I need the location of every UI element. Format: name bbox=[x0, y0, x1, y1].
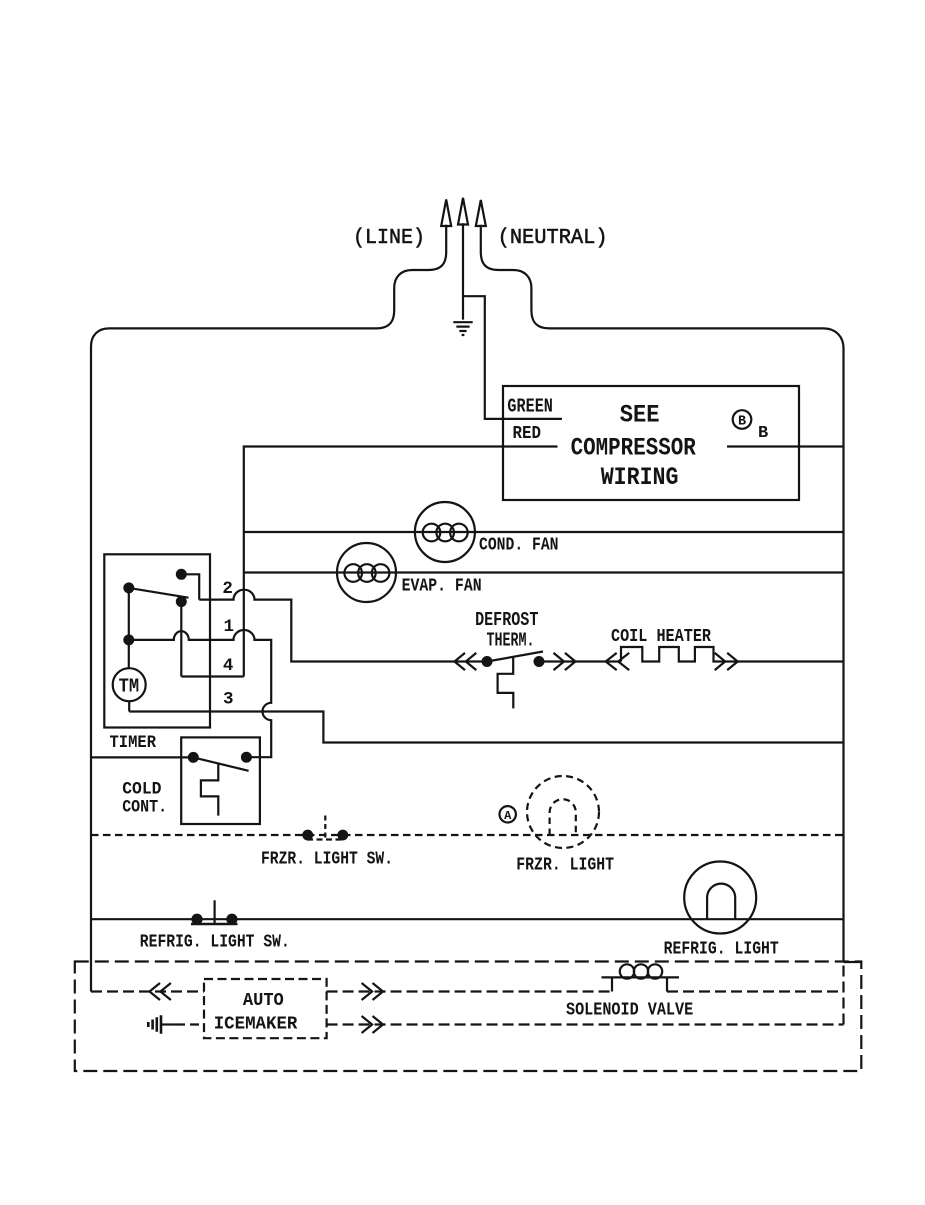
timer junction dot T3 bbox=[124, 636, 133, 645]
wire T2 down to terminal 4 bbox=[180, 602, 182, 677]
motor EVAP. FAN circle bbox=[337, 543, 396, 602]
wire outer box step bbox=[844, 961, 861, 963]
timer switch arm bbox=[129, 588, 189, 598]
wire green branch to compressor bbox=[463, 296, 562, 419]
svg-text:B: B bbox=[758, 424, 768, 443]
wire T3 to TM bbox=[128, 640, 130, 668]
timer contact dot T1 (terminal 2 feed) bbox=[177, 570, 186, 579]
wire frzr light dashed line bbox=[91, 834, 844, 836]
plug prong arrow LINE bbox=[441, 200, 451, 227]
coil SOLENOID VALVE raised line bbox=[602, 977, 680, 991]
ground symbol (plug earth) bbox=[453, 322, 472, 335]
compressor box SEE COMPRESSOR WIRING bbox=[503, 386, 799, 500]
wire NEUTRAL prong to right border bbox=[481, 225, 844, 962]
svg-text:A: A bbox=[504, 809, 512, 823]
svg-text:EVAP. FAN: EVAP. FAN bbox=[402, 576, 482, 597]
node A circled bbox=[500, 806, 516, 822]
icemaker outer dashed enclosure bbox=[75, 962, 862, 1072]
connector chevrons out of icemaker row2 bbox=[362, 1016, 383, 1033]
wire icemaker row2 left bbox=[161, 1023, 176, 1025]
wire icemaker row1 right dashed bbox=[667, 990, 844, 992]
wire terminal 1 with hops, down to cold control bbox=[129, 630, 271, 757]
switch FRZR. LIGHT SW. dot right bbox=[339, 831, 348, 840]
wire icemaker row2 right dashed bbox=[327, 1023, 844, 1025]
wire refrig light line bbox=[91, 918, 844, 920]
switch REFRIG. LIGHT SW. dot right bbox=[227, 915, 236, 924]
connector chevrons into icemaker bbox=[150, 983, 171, 1000]
svg-text:CONT.: CONT. bbox=[122, 798, 167, 818]
plug prong arrow NEUTRAL bbox=[476, 200, 486, 226]
svg-text:(NEUTRAL): (NEUTRAL) bbox=[498, 227, 608, 250]
defrost therm contact dot left bbox=[483, 657, 492, 666]
terminal B circled bbox=[733, 410, 752, 429]
defrost therm contact dot right bbox=[535, 657, 544, 666]
svg-text:TIMER: TIMER bbox=[110, 733, 157, 753]
wire TM to terminal 3 bbox=[128, 701, 130, 711]
switch FRZR. LIGHT SW. plunger tick bbox=[324, 816, 326, 840]
resistor COIL HEATER element bbox=[621, 647, 844, 662]
wire defrost to heater bbox=[539, 660, 621, 662]
cold control bellows zigzag bbox=[201, 763, 218, 815]
motor COND. FAN circle bbox=[415, 502, 475, 562]
connector chevrons before coil heater bbox=[606, 653, 630, 670]
wire LINE prong to left border bbox=[91, 225, 446, 992]
box AUTO ICEMAKER dashed bbox=[204, 979, 327, 1038]
svg-text:GREEN: GREEN bbox=[507, 396, 553, 418]
svg-text:3: 3 bbox=[223, 689, 234, 709]
timer contact dot T2 bbox=[177, 597, 186, 606]
switch FRZR. LIGHT SW. dot left bbox=[303, 831, 312, 840]
svg-text:DEFROST: DEFROST bbox=[475, 609, 538, 631]
svg-text:COND. FAN: COND. FAN bbox=[479, 535, 559, 556]
switch REFRIG. LIGHT SW. contact bar bbox=[191, 923, 238, 926]
defrost therm switch arm bbox=[487, 652, 543, 662]
svg-text:THERM.: THERM. bbox=[487, 630, 535, 652]
svg-text:SEE: SEE bbox=[620, 401, 660, 430]
connector chevrons after defrost therm bbox=[554, 653, 576, 670]
coil EVAP. FAN windings bbox=[344, 564, 362, 582]
cold control contact dot left bbox=[189, 753, 198, 762]
svg-text:TM: TM bbox=[119, 676, 140, 698]
wire icemaker right vertical dashed bbox=[842, 962, 844, 1025]
svg-text:4: 4 bbox=[223, 656, 234, 676]
switch FRZR. LIGHT SW. contact bar bbox=[307, 838, 344, 840]
wire terminal 3 to right border bbox=[129, 712, 843, 743]
wire terminal 2 with hop over feeder bbox=[199, 590, 487, 662]
lamp FRZR. LIGHT filament bbox=[550, 799, 576, 835]
svg-text:COLD: COLD bbox=[122, 780, 161, 800]
connector chevrons out of icemaker row1 bbox=[362, 983, 383, 1000]
wire evap fan line bbox=[244, 571, 844, 573]
svg-text:REFRIG. LIGHT SW.: REFRIG. LIGHT SW. bbox=[140, 933, 290, 953]
svg-text:FRZR. LIGHT SW.: FRZR. LIGHT SW. bbox=[261, 850, 393, 870]
svg-text:COIL HEATER: COIL HEATER bbox=[611, 626, 712, 647]
lamp FRZR. LIGHT dashed circle bbox=[527, 776, 599, 848]
svg-text:1: 1 bbox=[223, 617, 234, 637]
lamp REFRIG. LIGHT filament bbox=[707, 884, 735, 920]
svg-text:(LINE): (LINE) bbox=[353, 227, 425, 250]
wire icemaker row1 middle dashed bbox=[327, 990, 612, 992]
wire T0 to T3 bbox=[128, 588, 130, 640]
wire T1 to terminal 2 bbox=[181, 574, 199, 599]
plug prong arrow GROUND bbox=[458, 198, 468, 225]
switch REFRIG. LIGHT SW. dot left bbox=[193, 915, 202, 924]
cold control switch arm bbox=[193, 757, 248, 770]
svg-text:FRZR. LIGHT: FRZR. LIGHT bbox=[516, 856, 614, 876]
cold control contact dot right bbox=[242, 753, 251, 762]
svg-text:ICEMAKER: ICEMAKER bbox=[214, 1014, 298, 1034]
svg-text:RED: RED bbox=[513, 424, 542, 444]
wire B output to right border bbox=[727, 445, 844, 447]
coil COND. FAN windings bbox=[423, 524, 441, 542]
switch REFRIG. LIGHT SW. plunger tick bbox=[214, 900, 216, 924]
svg-text:SOLENOID VALVE: SOLENOID VALVE bbox=[566, 1001, 693, 1021]
svg-text:AUTO: AUTO bbox=[243, 991, 284, 1011]
timer box bbox=[104, 554, 210, 727]
wire RED line and vertical feeder node bbox=[244, 447, 558, 677]
svg-text:2: 2 bbox=[222, 579, 233, 599]
connector chevrons after coil heater bbox=[715, 653, 738, 670]
wire cond fan line bbox=[244, 531, 844, 533]
timer motor TM circle bbox=[113, 668, 146, 701]
ground symbol icemaker bbox=[148, 1015, 161, 1033]
timer pivot dot T0 bbox=[124, 584, 133, 593]
connector chevrons before defrost therm bbox=[455, 653, 477, 670]
svg-text:B: B bbox=[738, 414, 746, 429]
wire left border to cold control bbox=[91, 756, 193, 758]
defrost therm bimetal zigzag bbox=[498, 658, 514, 709]
svg-text:WIRING: WIRING bbox=[601, 463, 679, 492]
svg-text:REFRIG. LIGHT: REFRIG. LIGHT bbox=[664, 940, 779, 960]
wire terminal 4 bbox=[181, 675, 244, 677]
svg-text:COMPRESSOR: COMPRESSOR bbox=[571, 434, 696, 463]
lamp REFRIG. LIGHT circle bbox=[684, 862, 756, 934]
cold control box bbox=[181, 737, 260, 824]
wire icemaker row1 left dashed bbox=[91, 990, 204, 992]
wire ground prong shaft bbox=[462, 223, 464, 319]
coil SOLENOID VALVE windings bbox=[620, 964, 634, 978]
